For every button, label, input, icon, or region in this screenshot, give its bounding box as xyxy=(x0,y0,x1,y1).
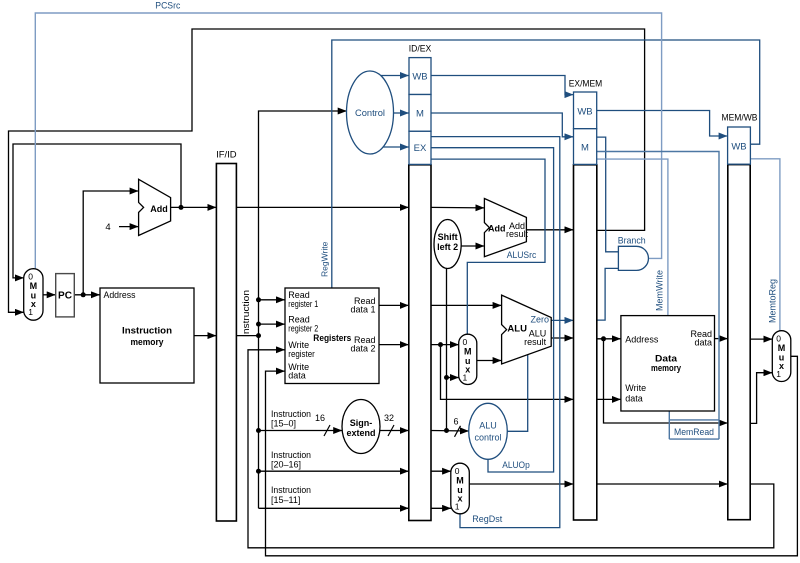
svg-text:data: data xyxy=(288,371,306,381)
svg-text:memory: memory xyxy=(651,363,682,374)
svg-text:M: M xyxy=(581,142,589,153)
svg-text:Branch: Branch xyxy=(618,235,646,246)
svg-text:Write: Write xyxy=(625,383,646,393)
svg-text:6: 6 xyxy=(453,416,458,426)
svg-text:Instruction: Instruction xyxy=(271,409,311,419)
svg-text:MemRead: MemRead xyxy=(674,427,714,438)
svg-text:Address: Address xyxy=(104,290,136,300)
svg-text:Zero: Zero xyxy=(531,315,550,325)
svg-text:ALUSrc: ALUSrc xyxy=(507,250,537,261)
svg-text:control: control xyxy=(474,433,501,443)
svg-text:register 2: register 2 xyxy=(288,323,318,333)
svg-text:0: 0 xyxy=(776,334,781,344)
svg-text:MemWrite: MemWrite xyxy=(654,270,664,311)
svg-text:32: 32 xyxy=(384,413,394,423)
svg-text:1: 1 xyxy=(28,307,33,317)
svg-text:data: data xyxy=(694,338,712,348)
svg-text:Sign-: Sign- xyxy=(350,418,373,428)
svg-text:[15–11]: [15–11] xyxy=(271,495,300,505)
svg-text:RegDst: RegDst xyxy=(472,514,502,525)
svg-text:MemtoReg: MemtoReg xyxy=(767,279,777,323)
svg-text:ALUOp: ALUOp xyxy=(502,460,530,471)
svg-text:IF/ID: IF/ID xyxy=(216,149,237,160)
svg-text:1: 1 xyxy=(463,372,468,382)
svg-text:M: M xyxy=(416,108,424,119)
svg-text:ALU: ALU xyxy=(479,421,497,431)
svg-text:ID/EX: ID/EX xyxy=(409,43,432,54)
svg-text:Registers: Registers xyxy=(313,333,351,344)
svg-text:extend: extend xyxy=(346,428,375,438)
svg-text:0: 0 xyxy=(28,272,33,282)
svg-text:result: result xyxy=(506,229,529,239)
svg-text:Shift: Shift xyxy=(438,232,458,242)
svg-text:ALU: ALU xyxy=(507,324,527,335)
svg-text:PCSrc: PCSrc xyxy=(155,1,180,11)
svg-text:RegWrite: RegWrite xyxy=(320,241,330,277)
svg-text:Add: Add xyxy=(488,224,506,234)
svg-text:register 1: register 1 xyxy=(288,299,318,309)
svg-text:register: register xyxy=(288,349,315,359)
svg-text:MEM/WB: MEM/WB xyxy=(722,113,758,124)
svg-text:result: result xyxy=(524,337,547,347)
svg-text:0: 0 xyxy=(455,466,460,476)
svg-text:Instruction: Instruction xyxy=(122,325,172,336)
svg-text:left 2: left 2 xyxy=(437,242,458,252)
svg-text:1: 1 xyxy=(455,501,460,511)
svg-text:0: 0 xyxy=(463,337,468,347)
svg-text:PC: PC xyxy=(58,290,72,302)
svg-text:Address: Address xyxy=(625,334,659,344)
svg-text:data: data xyxy=(625,393,643,403)
svg-text:Control: Control xyxy=(355,108,385,119)
svg-text:memory: memory xyxy=(131,337,165,348)
svg-text:data 1: data 1 xyxy=(350,305,375,315)
svg-text:[20–16]: [20–16] xyxy=(271,459,301,469)
svg-text:16: 16 xyxy=(315,413,325,423)
svg-text:1: 1 xyxy=(776,369,781,379)
svg-text:WB: WB xyxy=(731,141,746,152)
svg-text:Add: Add xyxy=(150,204,168,214)
svg-text:EX/MEM: EX/MEM xyxy=(569,78,603,89)
svg-text:data 2: data 2 xyxy=(350,344,375,354)
svg-text:Instruction: Instruction xyxy=(271,485,311,495)
svg-text:EX: EX xyxy=(414,143,427,154)
svg-text:WB: WB xyxy=(412,71,427,82)
svg-text:WB: WB xyxy=(577,106,592,117)
svg-text:[15–0]: [15–0] xyxy=(271,418,296,428)
svg-text:4: 4 xyxy=(105,222,110,233)
svg-text:Instruction: Instruction xyxy=(241,290,251,337)
